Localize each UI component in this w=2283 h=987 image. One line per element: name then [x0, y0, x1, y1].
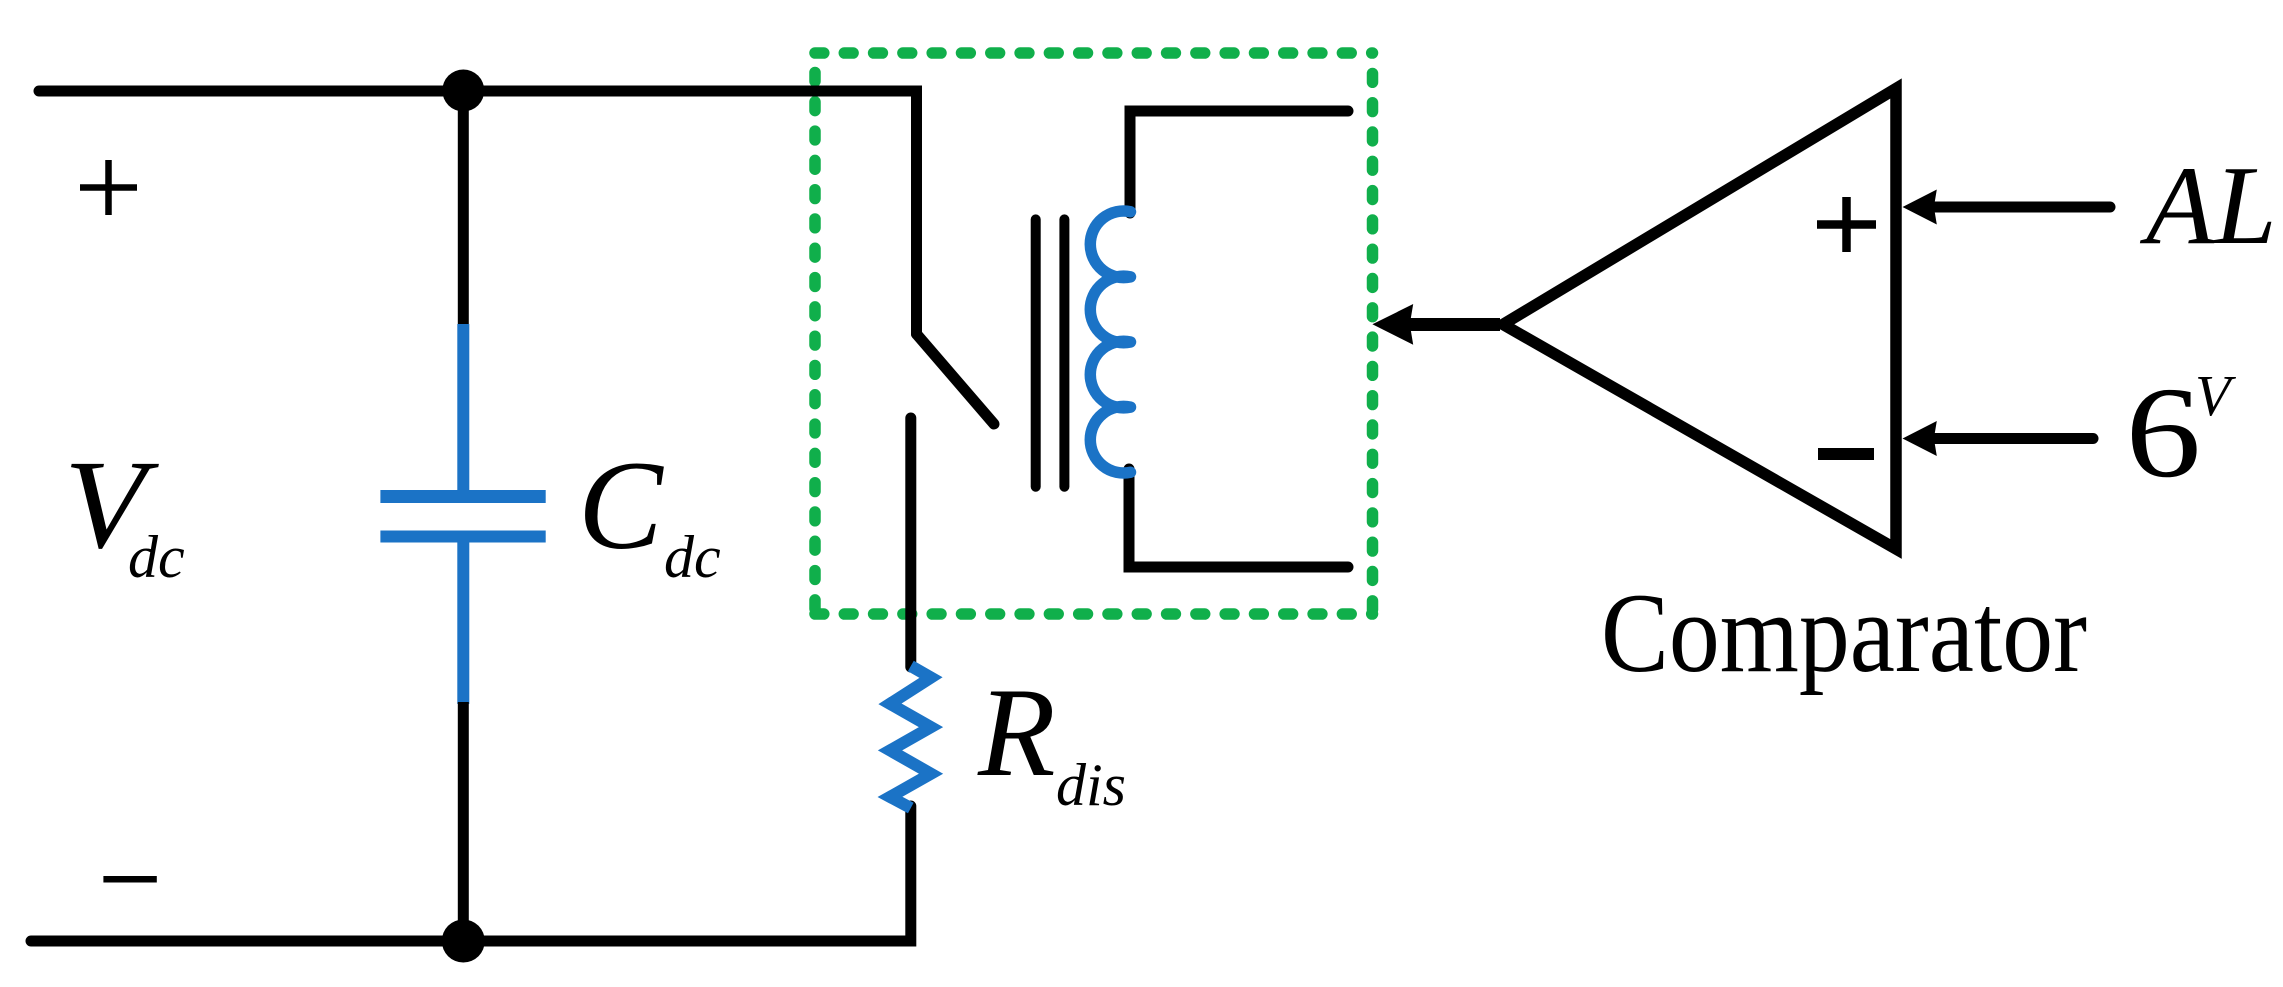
- wire capacitor branch black lower: [458, 702, 469, 941]
- relay box dashed green left edge: [809, 53, 821, 614]
- relay box dashed green top edge: [815, 47, 1373, 59]
- node junction dot top: [442, 70, 484, 112]
- switch blade: [917, 334, 995, 424]
- plus polarity symbol left: [80, 160, 137, 215]
- arrowhead comparator output: [1372, 304, 1413, 345]
- svg-text:6: 6: [2126, 361, 2202, 505]
- wire input AL: [1930, 202, 2110, 213]
- svg-text:Comparator: Comparator: [1601, 571, 2087, 696]
- minus polarity symbol left: [103, 876, 156, 883]
- comparator plus input mark: [1817, 197, 1876, 252]
- wire comparator output: [1408, 318, 1500, 331]
- switch lower contact stub: [905, 418, 916, 667]
- relay coil top lead wire: [1130, 111, 1348, 213]
- relay box dashed green right edge: [1367, 53, 1379, 614]
- svg-text:dis: dis: [1056, 752, 1126, 818]
- arrowhead input AL: [1903, 190, 1937, 225]
- wire input 6V: [1930, 433, 2093, 444]
- relay coil blue: [1090, 211, 1130, 473]
- relay box dashed green bottom edge: [815, 608, 1373, 620]
- wire bottom rail: [31, 806, 911, 941]
- wire top rail with switch vertical: [39, 91, 917, 334]
- svg-text:AL: AL: [2139, 144, 2277, 268]
- relay core bar 2: [1059, 219, 1069, 486]
- wire capacitor branch blue upper: [457, 324, 469, 492]
- op-amp comparator triangle: [1503, 89, 1896, 550]
- svg-text:C: C: [578, 436, 664, 576]
- wire capacitor branch blue lower: [457, 541, 469, 704]
- comparator minus input mark: [1818, 448, 1874, 460]
- svg-text:R: R: [977, 663, 1056, 803]
- wire capacitor branch black upper: [458, 90, 469, 326]
- svg-text:dc: dc: [128, 524, 185, 590]
- svg-text:dc: dc: [664, 524, 721, 590]
- relay core bar 1: [1031, 219, 1041, 486]
- arrowhead input 6V: [1903, 421, 1937, 456]
- node junction dot bottom: [442, 920, 485, 963]
- capacitor Cdc top plate: [380, 490, 545, 503]
- resistor Rdis zigzag: [890, 666, 931, 808]
- relay coil bottom lead wire: [1129, 469, 1348, 567]
- capacitor Cdc bottom plate: [380, 531, 545, 543]
